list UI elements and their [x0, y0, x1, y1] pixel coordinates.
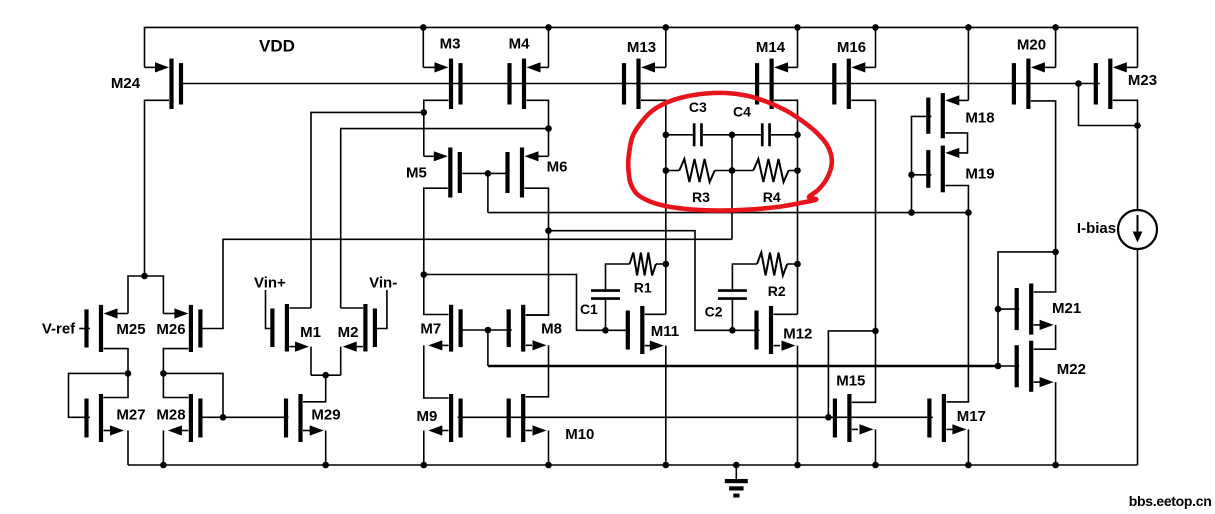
node tail junction: [322, 372, 329, 379]
svg-text:VDD: VDD: [259, 37, 295, 56]
node M26 M28 junction: [160, 370, 167, 377]
wire Vin+ to M1 gate: [266, 290, 274, 329]
node ground rail junction: [965, 462, 972, 469]
transistor M13: [622, 39, 656, 109]
wire M20 drain: [1031, 101, 1056, 292]
svg-text:M10: M10: [565, 426, 594, 443]
red highlight loop around R3 R4 C3 C4: [628, 93, 832, 211]
transistor M17: [927, 394, 986, 442]
wire M5 drain: [424, 188, 448, 274]
wire M18 gate: [912, 116, 932, 174]
wire M12 source: [774, 341, 798, 466]
node ground rail junction: [1052, 462, 1059, 469]
wire M8 source: [526, 340, 549, 397]
transistor M16: [832, 39, 866, 109]
wire gate junction down: [487, 330, 489, 366]
wire M11 source: [645, 341, 666, 466]
wire M27 drain: [104, 373, 129, 397]
svg-text:M1: M1: [300, 324, 321, 341]
transistor M8: [507, 305, 562, 352]
transistor M7: [420, 305, 462, 352]
wire M2 source: [341, 342, 363, 376]
wire M7 M8 gate line: [463, 329, 512, 331]
svg-text:M13: M13: [627, 39, 656, 56]
label V-ref: [42, 321, 76, 338]
svg-text:M28: M28: [156, 407, 185, 424]
wire M26 drain: [163, 349, 188, 374]
wire M13 drain rail junctions: [663, 132, 670, 174]
wire R1 leads: [606, 264, 666, 289]
wire M2 drain link: [341, 129, 549, 308]
svg-text:M12: M12: [783, 326, 812, 343]
node M22 gate junction: [995, 363, 1002, 370]
svg-text:M4: M4: [509, 36, 530, 53]
svg-text:R2: R2: [768, 283, 786, 299]
wire M27 source: [104, 425, 129, 465]
node M25 M27 junction: [125, 370, 132, 377]
wire R3 R4 mid rail: [731, 135, 733, 240]
wire M13 drain: [641, 100, 666, 314]
transistor M12: [754, 306, 812, 354]
svg-text:M20: M20: [1017, 37, 1046, 54]
wire M20 source: [1031, 27, 1056, 72]
node ground rail junction: [733, 462, 740, 469]
node M20 drain junction: [1052, 249, 1059, 256]
svg-text:M6: M6: [547, 159, 568, 176]
node M5 M6 gate junction: [485, 170, 492, 177]
wire VDD rail: [145, 27, 1138, 67]
wire M24 drain: [145, 100, 170, 276]
node VDD junction: [545, 24, 552, 31]
svg-text:V-ref: V-ref: [42, 321, 76, 338]
label Vin-: [369, 275, 397, 292]
transistor M6: [505, 148, 567, 198]
svg-text:M27: M27: [116, 407, 145, 424]
wire M6 source: [525, 151, 549, 161]
wire M6 drain: [525, 188, 549, 315]
wire tail to M29 drain: [303, 375, 326, 402]
wire M28 M29 gate line: [202, 416, 288, 418]
wire M3 drain: [424, 100, 449, 156]
resistor R4: [753, 159, 788, 205]
transistor M15: [833, 373, 866, 443]
label Vin+: [254, 275, 286, 292]
node VDD junction: [663, 24, 670, 31]
wire M4 source: [527, 27, 549, 72]
wire M25 source: [104, 276, 145, 319]
wire M5 source: [424, 151, 448, 161]
transistor M20: [1012, 37, 1046, 110]
transistor M18: [926, 93, 994, 138]
node ground rail junction: [545, 462, 552, 469]
node R3 C3 mid junction: [729, 132, 736, 174]
wire M12 drain: [774, 313, 798, 315]
node VDD junction: [420, 24, 427, 31]
svg-text:M24: M24: [111, 75, 141, 92]
svg-text:R3: R3: [692, 189, 710, 205]
wire top PMOS gate bus: [183, 83, 1100, 85]
transistor M22: [1015, 341, 1086, 392]
svg-text:R4: R4: [763, 189, 781, 205]
svg-text:M7: M7: [420, 321, 441, 338]
node M7 M8 gate junction: [485, 327, 492, 334]
transistor M28: [156, 394, 202, 442]
ground symbol: [725, 465, 748, 498]
svg-text:C2: C2: [705, 304, 723, 320]
wire M18 drain to M19 source: [945, 133, 967, 158]
transistor M5: [406, 148, 462, 198]
svg-text:R1: R1: [634, 280, 652, 296]
wire M18 source: [945, 27, 968, 105]
wire M1 drain stub: [289, 307, 311, 309]
node M7 drain junction: [421, 271, 428, 278]
wire M16 drain to M15 gate: [828, 331, 875, 417]
node M28 M29 gate junction: [220, 414, 227, 421]
wire M5 M6 gate line: [462, 172, 509, 174]
svg-text:M26: M26: [156, 321, 185, 338]
svg-text:C3: C3: [689, 99, 707, 115]
node M23 drain junction: [1134, 122, 1141, 129]
node ground rail junction: [872, 462, 879, 469]
wire M24 source: [145, 62, 170, 72]
node M6 drain junction: [545, 227, 552, 234]
wire gate junction to bias bus: [487, 173, 489, 212]
wire M7 drain: [424, 275, 449, 315]
wire C2 bottom lead: [731, 300, 733, 331]
wire C4 leads: [732, 134, 798, 136]
svg-text:M29: M29: [311, 407, 340, 424]
node M15 gate junction: [825, 414, 832, 421]
wire M7 drain to M11 gate: [424, 275, 630, 331]
wire Vin- to M2 gate: [377, 290, 387, 329]
wire R4 leads: [732, 170, 798, 172]
svg-text:C1: C1: [580, 301, 598, 317]
wire I-bias to ground rail: [1137, 249, 1139, 465]
transistor M25: [84, 305, 145, 352]
node C2 junction: [729, 327, 736, 334]
svg-text:M17: M17: [957, 408, 986, 425]
resistor R3: [679, 159, 714, 205]
transistor M10: [507, 394, 595, 443]
wire C3 leads: [666, 134, 732, 136]
node M3 drain junction: [421, 109, 428, 116]
transistor M19: [926, 146, 994, 193]
wire M21 M22 gate feed: [998, 252, 1056, 366]
wire M28 source: [163, 425, 188, 465]
wire tail node: [311, 374, 341, 376]
svg-text:M16: M16: [837, 39, 866, 56]
transistor M23: [1094, 59, 1157, 109]
wire M17 source: [946, 424, 968, 465]
capacitor C1: [580, 289, 620, 317]
label I-bias: [1077, 220, 1116, 237]
transistor M9: [416, 394, 462, 442]
wire M1 drain link: [311, 112, 424, 308]
node ground rail junction: [794, 462, 801, 469]
current source I-bias: [1118, 210, 1157, 249]
wire M8 drain: [526, 314, 549, 316]
wire M28 gate loop: [163, 373, 223, 417]
wire R3 leads: [666, 170, 732, 172]
label VDD: [259, 37, 295, 56]
wire M23 drain: [1113, 100, 1138, 210]
node ground rail junction: [663, 462, 670, 469]
svg-text:M8: M8: [541, 321, 562, 338]
svg-text:M18: M18: [965, 110, 994, 127]
wire M1 source: [289, 342, 311, 376]
svg-text:M3: M3: [440, 36, 461, 53]
wire M29 source: [303, 425, 326, 465]
transistor M21: [1015, 284, 1082, 335]
node M18 M19 gate junction: [908, 172, 915, 179]
wire M23 source: [1113, 62, 1138, 72]
wire M2 drain stub: [341, 307, 363, 309]
transistor M4: [507, 36, 530, 110]
svg-text:M11: M11: [651, 323, 679, 340]
svg-text:M25: M25: [116, 321, 145, 338]
wire M15 source: [852, 424, 876, 465]
resistor R1: [630, 253, 656, 296]
svg-text:M14: M14: [756, 39, 786, 56]
wire M21 gate: [998, 308, 1019, 310]
wire M14 drain rail junctions: [794, 132, 801, 174]
svg-text:M21: M21: [1052, 300, 1081, 317]
wire M21 source to M22 drain: [1034, 320, 1056, 349]
node R1 right junction: [663, 261, 670, 268]
resistor R2: [757, 253, 787, 300]
svg-text:Vin+: Vin+: [254, 275, 286, 292]
wire M28 drain: [163, 373, 188, 397]
capacitor C3: [689, 99, 707, 146]
transistor M3: [440, 36, 463, 110]
wire M25 drain: [104, 349, 129, 374]
transistor M24: [111, 59, 183, 109]
node C1 junction: [602, 327, 609, 334]
node ground rail junction: [322, 462, 329, 469]
node M24 drain junction: [141, 273, 148, 280]
wire M27 gate loop: [69, 373, 129, 417]
node VDD junction: [794, 24, 801, 31]
wire M7 source: [424, 340, 449, 398]
node gate bus junction: [1075, 80, 1082, 87]
wire M26 source: [145, 276, 189, 319]
wire M14 source: [774, 27, 797, 72]
node VDD junction: [1052, 24, 1059, 31]
svg-text:C4: C4: [733, 104, 751, 120]
wire M19 gate: [912, 174, 932, 176]
wire M13 source: [641, 27, 666, 72]
wire V-ref to M25 gate: [79, 328, 90, 330]
node M16 drain junction: [872, 328, 879, 335]
node VDD junction: [965, 24, 972, 31]
wire R2 leads: [732, 264, 797, 289]
wire output bus M7 M8 gates to M21 M22 gates: [488, 365, 998, 368]
wire bus M6 drain to M12 gate: [549, 231, 760, 331]
wire M16 source: [851, 27, 875, 72]
transistor M11: [626, 306, 679, 354]
node VDD junction: [872, 24, 879, 31]
transistor M27: [84, 394, 145, 442]
transistor M1: [270, 304, 321, 352]
wire C1 bottom lead: [605, 300, 607, 331]
wire M19 drain: [945, 186, 968, 402]
wire gate bus to M23 drain: [1079, 84, 1138, 126]
transistor M26: [156, 305, 202, 352]
transistor M29: [284, 394, 341, 442]
svg-text:bbs.eetop.cn: bbs.eetop.cn: [1129, 493, 1212, 509]
svg-text:M9: M9: [416, 408, 437, 425]
wire M3 source: [423, 27, 448, 72]
wire M22 source: [1034, 377, 1056, 465]
node ground rail junction: [160, 462, 167, 469]
node bias bus junction left: [908, 209, 915, 216]
wire M14 drain: [774, 100, 797, 314]
wire M9 source: [424, 425, 449, 465]
capacitor C4: [733, 104, 771, 147]
wire bias bus M19 drain to M5 M6 gates: [488, 212, 969, 214]
wire M22 gate: [998, 365, 1019, 367]
svg-text:M2: M2: [338, 324, 359, 341]
svg-text:I-bias: I-bias: [1077, 220, 1116, 237]
wire M11 drain: [645, 313, 666, 315]
wire R3 R4 node to M26 gate: [202, 239, 732, 328]
wire bottom mirror gate line: [458, 416, 933, 418]
transistor M14: [755, 39, 786, 109]
transistor M2: [338, 304, 377, 352]
capacitor C2: [705, 289, 747, 319]
svg-text:M5: M5: [406, 165, 427, 182]
wire M10 source: [526, 425, 549, 465]
node M19 drain bias junction: [965, 209, 972, 216]
svg-text:M23: M23: [1128, 72, 1157, 89]
wire M4 drain: [527, 100, 549, 156]
svg-text:Vin-: Vin-: [369, 275, 397, 292]
svg-text:M19: M19: [965, 166, 994, 183]
wire ground rail: [128, 464, 1138, 466]
watermark bbs.eetop.cn: [1129, 493, 1212, 509]
svg-text:M15: M15: [836, 373, 865, 390]
wire M16 drain: [851, 100, 875, 402]
node M21 gate junction: [995, 306, 1002, 313]
node R2 right junction: [794, 261, 801, 268]
wire M19 gates to bias bus: [911, 175, 913, 213]
node ground rail junction: [421, 462, 428, 469]
node M4 drain junction: [545, 125, 552, 132]
svg-text:M22: M22: [1057, 361, 1086, 378]
